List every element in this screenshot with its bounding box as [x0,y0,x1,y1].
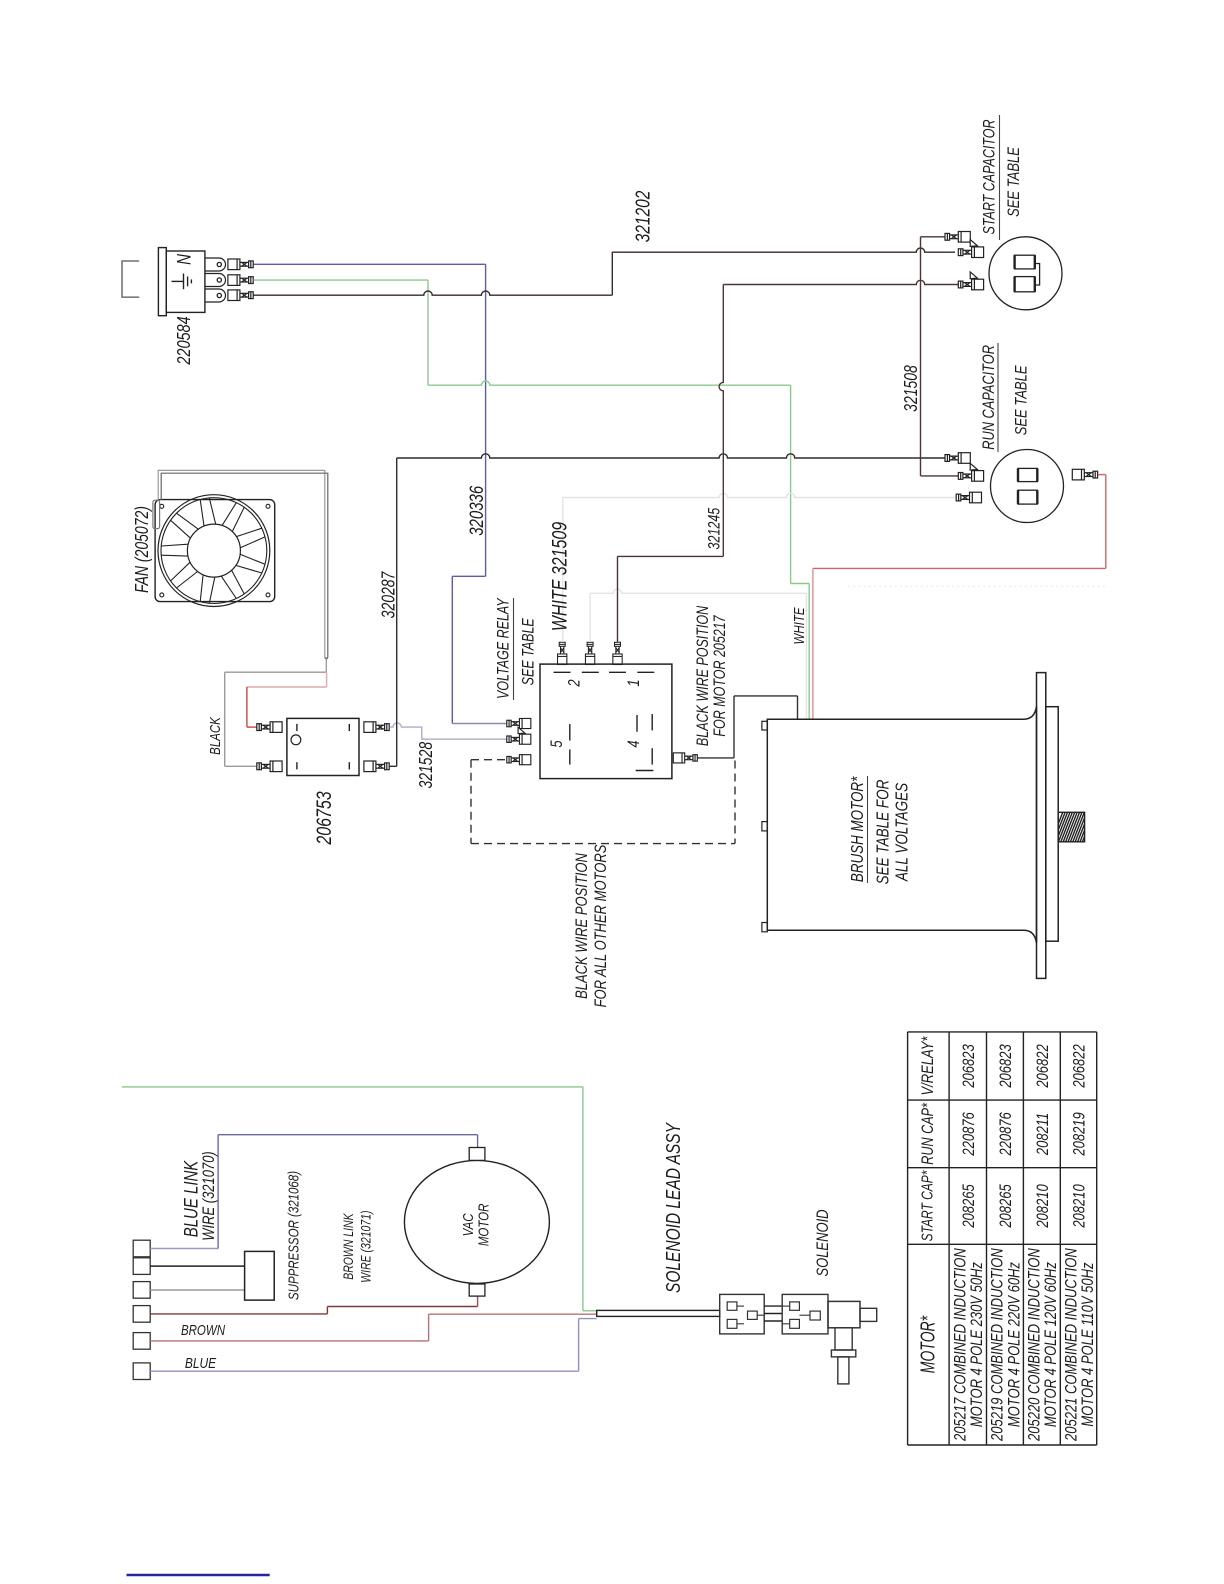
run capacitor circle [991,450,1064,523]
svg-text:208210: 208210 [1033,1184,1052,1229]
brush motor body [767,707,1036,944]
voltage relay body [540,664,672,779]
svg-text:FOR ALL OTHER MOTORS: FOR ALL OTHER MOTORS [592,845,611,1008]
voltage relay top terminal 3 [613,642,622,664]
svg-text:V/RELAY*: V/RELAY* [919,1036,938,1096]
table row 3 MOTOR description [1025,1248,1061,1442]
svg-text:VAC: VAC [459,1213,476,1236]
svg-text:220584: 220584 [173,316,194,365]
underline BRUSH MOTOR* [867,776,869,883]
brush motor shaft [1050,809,1114,845]
wire green from inlet pin2 to brush motor [254,280,810,719]
fan impeller [158,495,270,607]
voltage relay top terminal 2 [585,642,594,664]
wire maroon 321245 start capacitor to voltage relay t3 [618,280,959,642]
relay 206753 indicator circle [291,735,301,745]
run capacitor right terminal [1072,469,1097,480]
connector square 2 [133,1258,150,1275]
svg-text:320336: 320336 [465,486,487,536]
relay 206753 right terminal 1 [364,722,389,733]
relay 206753 left terminal 1 [257,722,282,733]
svg-text:206823: 206823 [959,1044,978,1089]
table row 4 MOTOR description [1062,1248,1098,1442]
wire white voltage relay t2 to brush motor [590,589,806,719]
svg-text:220876: 220876 [959,1112,978,1157]
svg-text:BLACK WIRE POSITION: BLACK WIRE POSITION [573,853,592,999]
svg-text:208211: 208211 [1033,1113,1052,1156]
wire blue link 321070 to vac motor [150,1135,477,1249]
wire blue from inlet pin1 to voltage relay [254,264,507,723]
svg-text:SEE TABLE FOR: SEE TABLE FOR [874,780,893,885]
svg-text:SUPPRESSOR (321068): SUPPRESSOR (321068) [285,1171,302,1300]
connector square 5 [133,1333,150,1350]
voltage relay left terminal 1 [507,718,531,728]
svg-text:206753: 206753 [312,791,336,846]
brush motor flange plate 2 [1046,707,1058,942]
svg-text:SOLENOID LEAD ASSY: SOLENOID LEAD ASSY [662,1121,684,1293]
wire brown link 321071 to vac motor [150,1296,477,1314]
label BROWN LINK WIRE (321071) [341,1210,374,1282]
wire black position for motor 205217 [698,696,798,758]
run capacitor element 2 [1018,490,1037,504]
svg-text:WIRE (321071): WIRE (321071) [358,1210,374,1282]
voltage relay top terminal 1 [558,642,567,664]
svg-text:SEE TABLE: SEE TABLE [1012,365,1031,436]
start capacitor terminal 1 [945,232,970,243]
label BLACK WIRE POSITION FOR ALL OTHER MOTORS [573,845,611,1008]
label BLUE LINK WIRE (321070) [179,1151,218,1241]
voltage relay left terminal 3 (dashed) [507,755,531,765]
voltage relay top pads [554,671,655,673]
svg-text:321202: 321202 [631,191,653,243]
svg-text:RUN CAPACITOR: RUN CAPACITOR [980,345,998,450]
svg-text:208265: 208265 [996,1184,1015,1229]
label VAC MOTOR [459,1203,491,1246]
wire red run capacitor to brush motor [813,475,1106,719]
svg-text:SEE TABLE: SEE TABLE [520,618,538,685]
svg-text:MOTOR 4 POLE 110V 50Hz: MOTOR 4 POLE 110V 50Hz [1078,1262,1097,1427]
wire blue to solenoid lead [150,1319,597,1372]
solenoid connector block 2 [782,1294,828,1334]
svg-text:206823: 206823 [996,1044,1015,1089]
wire gray to suppressor [150,1289,244,1291]
svg-text:SOLENOID: SOLENOID [814,1209,833,1276]
solenoid connector block 1 [720,1294,765,1334]
motor selection table [908,1032,1097,1445]
svg-text:208265: 208265 [959,1184,978,1229]
wire brown to solenoid lead [150,1314,597,1341]
fan cable (double line) [158,470,328,672]
run capacitor terminal 2 [958,463,983,481]
svg-text:MOTOR 4 POLE 230V 50Hz: MOTOR 4 POLE 230V 50Hz [968,1262,987,1427]
power inlet module 220584 - flange [158,248,166,316]
fan 205072 frame [155,500,275,602]
svg-text:321508: 321508 [901,365,921,412]
run capacitor terminal 3 [956,492,981,503]
start capacitor terminal 2 [958,240,983,258]
wire 321508 start capacitor t1 to run capacitor t2 [921,237,959,476]
svg-text:VOLTAGE RELAY: VOLTAGE RELAY [495,597,513,699]
wire black to suppressor [150,1265,244,1267]
svg-text:1: 1 [625,679,644,686]
svg-text:MOTOR*: MOTOR* [916,1315,939,1373]
power inlet pin 3 (neutral) [205,289,226,302]
start capacitor element 1 [1015,255,1035,269]
power inlet pin 2 (earth) [205,274,226,287]
start capacitor link bracket [1036,264,1040,286]
svg-text:208219: 208219 [1070,1112,1089,1157]
svg-text:321528: 321528 [416,742,436,789]
svg-text:BROWN: BROWN [181,1322,226,1339]
vac motor top terminal [469,1148,485,1161]
svg-text:N: N [173,254,195,265]
power inlet module 220584 - body [166,251,205,312]
voltage relay left terminal 2 [507,727,531,744]
wire 321528 from relay 206753 to voltage relay [390,723,507,739]
run capacitor terminal 1 [945,453,970,464]
mating lines [764,1306,782,1321]
svg-text:BLACK WIRE POSITION: BLACK WIRE POSITION [694,605,712,746]
wire green to solenoid lead [122,1087,597,1311]
start capacitor terminal 3 [958,272,983,290]
svg-text:2: 2 [565,679,584,688]
underline RUN CAPACITOR [997,343,999,452]
solenoid lead cable [597,1310,720,1316]
solenoid body [828,1301,877,1384]
run capacitor element 1 [1018,468,1037,481]
svg-text:320287: 320287 [379,571,399,619]
svg-text:ALL VOLTAGES: ALL VOLTAGES [893,782,912,882]
svg-text:BROWN LINK: BROWN LINK [341,1213,357,1280]
fan cable tab [153,500,160,528]
vac motor body [404,1160,549,1283]
voltage relay inner contacts [570,714,654,771]
power inlet module 220584 - mounting bracket [122,261,139,297]
terminal on inlet pin 2 [228,275,253,286]
svg-text:START CAPACITOR: START CAPACITOR [981,119,999,234]
underline VOLTAGE RELAY [513,598,515,700]
svg-text:FAN (205072): FAN (205072) [132,506,152,593]
start capacitor element 2 [1015,277,1035,292]
svg-text:START CAP*: START CAP* [918,1170,936,1241]
svg-text:BRUSH MOTOR*: BRUSH MOTOR* [848,776,867,882]
table row 2 MOTOR description [988,1248,1024,1442]
relay 206753 contact pads [297,724,349,770]
underline START CAPACITOR [999,115,1001,240]
terminal on inlet pin 3 [228,290,253,301]
wire red from fan to relay 206753 [247,672,327,727]
svg-text:4: 4 [625,740,644,747]
svg-text:FOR MOTOR 205217: FOR MOTOR 205217 [711,615,729,737]
suppressor 321068 body [245,1251,275,1300]
relay 206753 right terminal 2 [364,761,389,772]
svg-text:206822: 206822 [1070,1044,1089,1089]
svg-text:WHITE: WHITE [790,607,807,645]
svg-text:BLACK: BLACK [206,716,223,755]
svg-text:MOTOR: MOTOR [475,1203,492,1246]
wire 320287 run capacitor to relay 206753 [390,454,945,767]
relay 206753 body [287,718,359,775]
connector square 1 [133,1240,150,1257]
vac motor bottom terminal [469,1284,485,1296]
svg-text:MOTOR 4 POLE 220V 60Hz: MOTOR 4 POLE 220V 60Hz [1005,1262,1024,1427]
relay 206753 left terminal 2 [257,761,282,772]
faint hidden dashed line [848,585,1106,587]
svg-text:321245: 321245 [706,507,724,549]
wire gray BLACK from fan to relay 206753 [225,672,327,766]
brush motor flange plate 1 [1037,673,1046,979]
svg-text:WIRE (321070): WIRE (321070) [199,1151,218,1241]
label BLACK WIRE POSITION FOR MOTOR 205217 [694,605,729,746]
start capacitor circle [989,237,1062,310]
svg-text:SEE TABLE: SEE TABLE [1004,146,1023,217]
svg-text:BLUE: BLUE [185,1355,217,1372]
svg-text:WHITE 321509: WHITE 321509 [547,522,571,631]
connector square 3 [133,1282,150,1299]
brush motor mounting tabs [762,721,767,932]
svg-text:220876: 220876 [996,1112,1015,1157]
wire white 321509 run capacitor to voltage relay t1 [563,493,956,642]
power inlet earth symbol [172,274,192,290]
table row 1 MOTOR description [951,1248,987,1442]
svg-text:MOTOR 4 POLE 120V 60Hz: MOTOR 4 POLE 120V 60Hz [1042,1262,1061,1427]
svg-text:208210: 208210 [1070,1184,1089,1229]
dashed box black wire position for all other motors [471,760,735,844]
connector square 6 [133,1363,150,1380]
svg-text:5: 5 [548,740,567,748]
svg-text:RUN CAP*: RUN CAP* [919,1102,937,1165]
voltage relay right terminal [673,753,697,763]
terminal on inlet pin 1 [228,259,253,270]
footer line [127,1574,270,1577]
wire dark neutral from inlet pin3 to start capacitor [254,248,956,295]
svg-text:206822: 206822 [1033,1044,1052,1089]
power inlet pin 1 (blue) [205,258,226,271]
connector square 4 [133,1306,150,1323]
